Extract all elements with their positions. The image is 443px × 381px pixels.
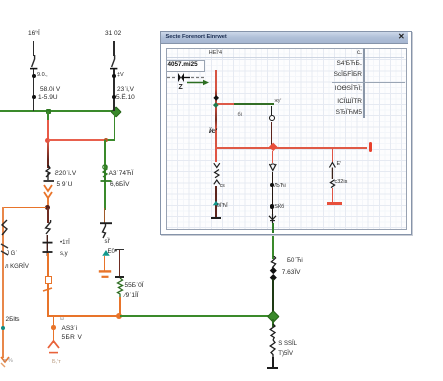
box 4057 [166,60,205,72]
node dot [112,95,116,99]
label voltage [40,87,60,94]
wire mini red horizontal [216,103,234,105]
wire popup red bus horizontal [215,147,367,149]
label 791 [125,293,139,300]
close X [398,33,405,41]
wire bottom green horizontal [120,315,273,317]
label 763 [282,270,301,277]
wire branch1 lower [33,69,34,111]
label left1 [6,251,17,257]
node red diamond [268,143,277,152]
label 58RV [62,335,83,342]
table border horizontal [332,82,406,83]
load popup b2 chevron [268,163,278,173]
node small brown dot [104,138,108,142]
wire green L horizontal [104,139,115,141]
wire maroon segment2 [47,208,49,223]
label left faint [3,359,13,365]
box small square [45,276,53,284]
tbar b3 red [327,202,342,205]
wire popup b1 red [215,148,217,162]
node spade [213,95,219,101]
label A374 [109,171,134,178]
wire orange down [47,253,49,276]
node junction on bus [46,109,51,114]
arrow load orange double chevron [42,184,56,208]
wire branch2 lower [113,69,114,111]
breaker on left line [0,219,10,237]
label b1 [220,184,225,189]
node red dot [45,138,50,143]
label b3 E [337,162,342,168]
wire load5501 tick top [115,249,124,250]
table texts [0,50,362,56]
arrow left bottom [0,356,10,368]
wire load5501 vertical [119,250,120,277]
grid major line [167,57,404,58]
wire gen drop [271,106,272,116]
breaker load1 [42,165,58,185]
label faint bottom [52,360,61,366]
wire popup red vertical mid [215,104,217,149]
label b3 732 [335,180,348,186]
wire maroon segment [47,140,49,168]
breaker branch1 [28,54,40,72]
node green diamond junction [268,310,280,322]
load popup b3 [328,161,339,189]
tbar load5501 [115,276,124,278]
wire green L vertical [114,112,116,141]
wire orange corner horizontal bottom [47,315,120,317]
label AS3 [62,326,78,333]
load popup b1 symbols [212,162,224,188]
wire right green vertical below popup [272,231,274,259]
wire orange 5501 tail [119,297,121,316]
label cap2 [60,251,68,257]
label 4057 [168,62,198,68]
breaker right S [268,256,280,270]
label 10Ch [287,258,303,264]
label AM [274,184,286,190]
label branch1 name [28,31,40,38]
node bus diamond [110,106,122,118]
breaker zigzag 5501 [113,278,127,297]
symbol bowtie with dashes [166,71,206,84]
label 6u [238,113,242,119]
wire red horizontal [48,139,104,141]
label voltage [117,87,134,94]
load mark left [0,243,10,257]
titlebar [161,32,408,45]
wire red feeder [47,120,49,141]
label Z [179,84,183,91]
tbar bottom [267,367,278,369]
node dot [112,74,116,78]
small grey mark [60,317,64,322]
label 669 [110,182,129,189]
label left2 [5,264,29,270]
wire orange left vertical [2,207,4,358]
wire popup b2 red [272,151,274,163]
wire b1 maroon [215,186,217,217]
label left3 [6,317,20,324]
node orange junction 5501 [116,313,122,319]
wire popup red vertical upper [215,70,217,105]
label b1 0VA [217,204,228,210]
wire b2 dark [272,172,274,217]
wire below junction [272,319,274,327]
node b2 dot1 [270,183,274,187]
ground wye b2 [268,214,277,224]
label NEN [209,51,222,57]
node orange dot2 [51,325,56,330]
wire orange down2 [47,283,49,315]
wire stub green from bus [47,111,49,120]
wire bottom tail [272,357,274,367]
breaker green [98,164,114,186]
label voltage2 [116,95,135,102]
table border vertical [363,48,364,119]
title text [166,35,227,41]
node teal dot [1,326,6,331]
label [117,73,124,79]
node b2 dot2 [270,204,274,208]
node dot [32,95,36,99]
wire dark segment [272,279,274,313]
tick mark [42,286,54,294]
label branch2 name [105,31,121,38]
wire branch2 top [113,41,114,56]
window dialog [160,31,412,236]
tbar b1 [211,217,221,219]
wire mini green horizontal [234,103,274,105]
arrow teal up [101,249,111,257]
node dot [32,74,36,78]
wire branch1 top [33,41,34,56]
node teal diamond [213,102,218,107]
label cap1 [60,240,70,246]
breaker dark on branchR [98,221,114,239]
wire b2 green exit [272,223,274,234]
wire gen lower [271,122,273,146]
wire brown transition [104,208,106,223]
capacitor bars [41,235,55,257]
breaker zigzag right bottom [267,324,280,358]
node orange dot [45,205,50,210]
bus main green [0,110,115,112]
label 9.0 [37,73,48,79]
wire orange horizontal left [2,207,46,209]
wire orange branchR tail [104,256,106,272]
label voltage2 [38,95,58,102]
label T5V [278,351,293,357]
label 5SIL [278,341,297,347]
label 3/2 [209,129,217,136]
panel grid [166,48,408,230]
arrow chevron bottom [47,340,61,356]
cap red end tick [369,142,372,152]
ground orange branchR [97,270,113,279]
arrow green z [186,79,210,86]
generator circle [269,115,275,121]
label 5501 [125,283,144,290]
wire green branchR vertical [104,140,106,210]
wire b3 tail [332,188,334,202]
label C0 [274,205,284,211]
node diamond dot1 [270,267,276,273]
label voltage [55,171,77,178]
label squiggle [105,239,111,245]
label E0 [108,249,117,255]
label voltage [57,182,73,189]
label xw [275,99,282,104]
breaker branch2 [108,54,120,72]
node diamond dot2 [270,274,276,280]
wire branch down at 53.7 [53,316,55,343]
breaker2 on feeder [42,220,56,236]
arrow b1 teal [212,200,220,206]
wire popup b3 red [332,148,334,163]
